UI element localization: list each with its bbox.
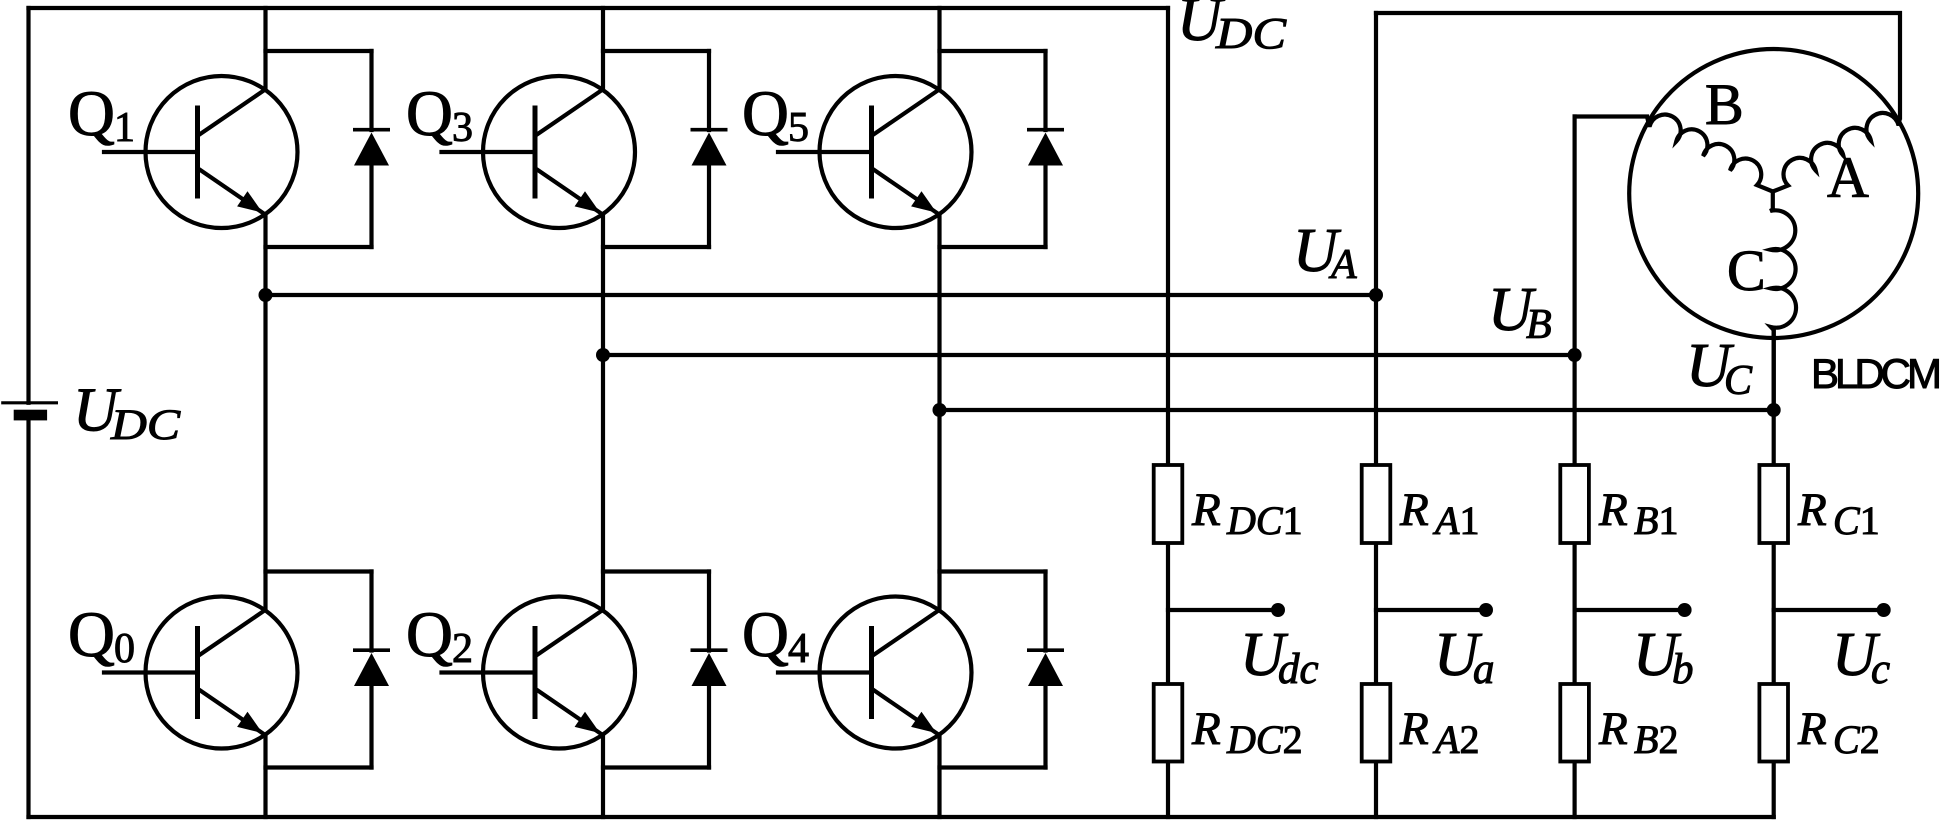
node U_A-left [259,288,273,302]
svg-text:A: A [1827,145,1869,210]
wire sense column A [1374,13,1378,465]
wire phase B line U_B [603,353,1575,357]
motor winding C [1770,192,1796,331]
svg-text:R: R [1191,484,1221,536]
wire bottom rail [29,815,1774,819]
transistor Q5 [778,76,972,228]
svg-text:R: R [1797,703,1827,755]
motor BLDCM circle [1629,49,1918,338]
resistor R_C1 [1759,465,1788,543]
svg-text:B1: B1 [1634,498,1678,543]
wire inverter leg 3 [937,8,941,90]
svg-text:R: R [1399,703,1429,755]
battery U_DC [1,403,58,421]
svg-text:B2: B2 [1634,717,1678,762]
svg-text:dc: dc [1278,646,1319,693]
svg-text:Q: Q [68,78,115,150]
wire inverter leg 1 [263,8,267,90]
wire left rail upper [26,8,30,403]
diode D2 freewheeling [603,572,728,768]
resistor R_B1 [1560,465,1589,543]
wire sense column C [1772,330,1776,465]
wire inverter leg 2 [601,8,605,90]
wire top feed to motor A [1376,13,1900,118]
svg-text:DC2: DC2 [1226,717,1303,762]
svg-text:DC: DC [1215,9,1287,58]
resistor R_A1 [1362,465,1391,543]
svg-text:Q: Q [406,78,453,150]
motor winding A [1773,113,1900,191]
node U_C-left [933,403,947,417]
diode D3 freewheeling [603,51,728,247]
svg-text:3: 3 [452,105,473,151]
node U_A-right [1369,288,1383,302]
node U_B-left [596,348,610,362]
wire sense column DC [1166,8,1170,465]
diode D0 freewheeling [266,572,391,768]
wire tap U_b [1575,608,1678,612]
wire left rail lower [26,420,30,817]
transistor Q4 [778,597,972,749]
node U_B-right [1568,348,1582,362]
svg-text:5: 5 [788,105,809,151]
wire tap U_dc [1168,608,1271,612]
svg-text:A: A [1328,242,1357,288]
svg-text:A2: A2 [1432,717,1479,762]
wire sense column B [1572,117,1576,466]
svg-text:R: R [1797,484,1827,536]
node tap U_b [1678,603,1692,617]
resistor R_C2 [1759,684,1788,762]
svg-text:a: a [1473,646,1495,693]
svg-text:c: c [1871,646,1890,693]
svg-text:R: R [1598,484,1628,536]
node tap U_c [1877,603,1891,617]
resistor R_DC2 [1154,684,1183,762]
svg-text:DC1: DC1 [1226,498,1303,543]
node U_C-right [1767,403,1781,417]
svg-text:Q: Q [406,599,453,671]
svg-text:4: 4 [788,626,809,672]
wire tap U_c [1774,608,1877,612]
resistor R_A2 [1362,684,1391,762]
svg-text:2: 2 [452,626,473,672]
svg-text:C1: C1 [1833,498,1880,543]
wire phase C line U_C [940,408,1774,412]
wire motor B feed [1575,114,1647,118]
node tap U_dc [1271,603,1285,617]
svg-text:R: R [1598,703,1628,755]
svg-text:Q: Q [742,78,789,150]
diode D4 freewheeling [940,572,1065,768]
svg-text:C: C [1724,358,1753,404]
node tap U_a [1479,603,1493,617]
resistor R_B2 [1560,684,1589,762]
svg-text:B: B [1526,302,1552,348]
diode D5 freewheeling [940,51,1065,247]
svg-text:DC: DC [110,402,182,449]
diode D1 freewheeling [266,51,391,247]
svg-text:R: R [1191,703,1221,755]
svg-text:0: 0 [114,626,135,672]
wire phase A line U_A [266,293,1377,297]
wire tap U_a [1376,608,1479,612]
transistor Q3 [442,76,636,228]
transistor Q2 [442,597,636,749]
svg-text:C2: C2 [1833,717,1880,762]
wire top DC rail [29,6,1169,10]
svg-text:BLDCM: BLDCM [1811,350,1942,397]
svg-text:C: C [1727,238,1766,303]
transistor Q1 [104,76,298,228]
svg-text:R: R [1399,484,1429,536]
svg-text:Q: Q [742,599,789,671]
svg-text:B: B [1705,72,1744,137]
svg-text:A1: A1 [1432,498,1479,543]
wire motor C lead down [1772,328,1776,410]
resistor R_DC1 [1154,465,1183,543]
svg-text:Q: Q [68,599,115,671]
svg-text:1: 1 [114,105,135,151]
motor winding B [1647,115,1773,192]
svg-text:b: b [1672,646,1694,693]
transistor Q0 [104,597,298,749]
